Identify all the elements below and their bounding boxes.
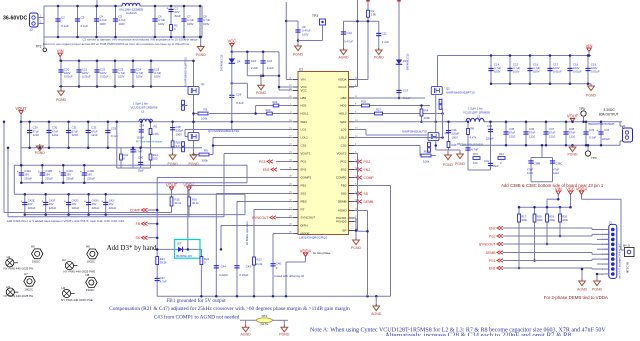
svg-text:VDDA: VDDA xyxy=(183,182,195,187)
svg-text:SW1: SW1 xyxy=(301,120,308,124)
svg-text:C39: C39 xyxy=(589,128,595,132)
svg-text:1210: 1210 xyxy=(529,134,536,138)
svg-text:COMP: COMP xyxy=(364,176,375,180)
svg-text:C11: C11 xyxy=(382,31,387,35)
svg-text:FB1 grounded for 5V output: FB1 grounded for 5V output xyxy=(166,297,226,304)
svg-text:100V: 100V xyxy=(176,132,182,136)
svg-text:C42E: C42E xyxy=(28,199,35,203)
svg-text:PG1: PG1 xyxy=(489,259,496,263)
svg-text:PGND: PGND xyxy=(35,151,46,155)
svg-text:220uF: 220uF xyxy=(602,137,610,141)
svg-text:VIN: VIN xyxy=(586,43,593,48)
svg-text:C49: C49 xyxy=(452,128,457,132)
svg-text:100V: 100V xyxy=(533,70,540,74)
svg-text:TP3: TP3 xyxy=(312,14,318,18)
svg-text:J2: J2 xyxy=(30,28,34,32)
svg-text:NY PMS 440 0025 PH: NY PMS 440 0025 PH xyxy=(4,267,34,271)
svg-text:0.1uF: 0.1uF xyxy=(589,136,596,140)
svg-text:R25: R25 xyxy=(361,100,366,104)
svg-text:Compensation (R21 & C47) adjus: Compensation (R21 & C47) adjusted for 25… xyxy=(109,305,350,312)
svg-text:82uF: 82uF xyxy=(175,14,182,18)
svg-text:+: + xyxy=(166,7,168,11)
svg-text:NVMFS6H801NLWFT1G: NVMFS6H801NLWFT1G xyxy=(446,90,475,94)
svg-text:PG1: PG1 xyxy=(301,160,307,164)
svg-text:0.01uF: 0.01uF xyxy=(100,75,109,79)
svg-text:MTSC-05: MTSC-05 xyxy=(626,261,630,273)
svg-text:HB1: HB1 xyxy=(301,96,307,100)
svg-text:80A OUTPUT: 80A OUTPUT xyxy=(599,113,619,117)
svg-text:Q1: Q1 xyxy=(201,82,205,86)
svg-text:SS: SS xyxy=(135,236,140,240)
svg-text:EN1: EN1 xyxy=(263,168,270,172)
svg-text:+: + xyxy=(596,129,598,133)
svg-text:C42G: C42G xyxy=(72,199,79,203)
svg-text:220uF: 220uF xyxy=(28,206,36,210)
svg-text:100k: 100k xyxy=(537,218,543,222)
svg-text:LOL2: LOL2 xyxy=(339,136,347,140)
svg-text:100k: 100k xyxy=(562,218,568,222)
svg-text:VOUT: VOUT xyxy=(567,114,579,119)
svg-text:EN2: EN2 xyxy=(364,168,371,172)
svg-text:FB2: FB2 xyxy=(341,184,347,188)
svg-text:100V: 100V xyxy=(302,32,309,36)
svg-text:VDDA: VDDA xyxy=(338,78,346,82)
svg-text:SYNCOUT: SYNCOUT xyxy=(301,216,316,220)
svg-text:220uF: 220uF xyxy=(92,206,100,210)
svg-text:EN2: EN2 xyxy=(489,226,496,230)
svg-text:1210: 1210 xyxy=(553,171,559,175)
svg-text:0.1uF: 0.1uF xyxy=(81,24,89,28)
svg-text:100V: 100V xyxy=(119,22,126,26)
svg-text:16V: 16V xyxy=(92,202,97,206)
svg-text:SYNCOUT: SYNCOUT xyxy=(479,242,496,246)
svg-text:tested with dithering off: tested with dithering off xyxy=(274,274,304,278)
svg-text:PGND: PGND xyxy=(279,332,290,336)
svg-text:36-60VDC: 36-60VDC xyxy=(3,16,27,22)
svg-text:SS1: SS1 xyxy=(301,192,307,196)
svg-text:1902C: 1902C xyxy=(87,260,96,264)
svg-text:16V: 16V xyxy=(49,202,54,206)
svg-text:LOL1: LOL1 xyxy=(301,136,309,140)
svg-text:PGND: PGND xyxy=(374,56,385,60)
svg-text:R20: R20 xyxy=(266,108,271,112)
svg-text:4.47k: 4.47k xyxy=(470,136,477,140)
svg-text:DEMB: DEMB xyxy=(364,200,375,204)
svg-text:H6: H6 xyxy=(86,245,90,249)
svg-text:LO1: LO1 xyxy=(301,128,307,132)
svg-text:R26: R26 xyxy=(176,141,181,145)
svg-text:PGND: PGND xyxy=(443,163,454,167)
svg-text:100V: 100V xyxy=(158,22,165,26)
svg-text:PGND: PGND xyxy=(351,246,362,250)
svg-text:16V: 16V xyxy=(109,202,114,206)
svg-text:NT1: NT1 xyxy=(262,314,268,318)
svg-text:R6: R6 xyxy=(471,127,475,131)
svg-text:R16: R16 xyxy=(192,198,197,202)
svg-text:0.01uF: 0.01uF xyxy=(591,70,600,74)
svg-text:for two phase: for two phase xyxy=(313,251,331,255)
svg-text:R10: R10 xyxy=(424,149,430,153)
svg-text:VOUT2: VOUT2 xyxy=(336,152,346,156)
svg-text:2.2nF: 2.2nF xyxy=(267,66,274,70)
svg-text:R18: R18 xyxy=(537,214,542,218)
svg-text:VCCX: VCCX xyxy=(338,85,346,89)
svg-text:VIN: VIN xyxy=(57,48,64,53)
svg-text:C45: C45 xyxy=(246,264,252,268)
svg-text:100k: 100k xyxy=(549,218,555,222)
svg-text:0.01uF: 0.01uF xyxy=(573,70,582,74)
svg-text:TP2: TP2 xyxy=(36,45,42,49)
svg-text:220uF: 220uF xyxy=(49,206,57,210)
svg-text:L2: L2 xyxy=(141,110,145,114)
svg-text:15pF: 15pF xyxy=(138,169,145,173)
svg-text:1210: 1210 xyxy=(527,171,533,175)
svg-text:+: + xyxy=(101,200,103,204)
svg-text:1210: 1210 xyxy=(509,134,516,138)
svg-text:NY PMS 440 0025 PH: NY PMS 440 0025 PH xyxy=(4,294,34,298)
svg-text:SYNCOUT: SYNCOUT xyxy=(252,216,269,220)
svg-text:100V: 100V xyxy=(136,75,143,79)
svg-text:H5: H5 xyxy=(31,245,35,249)
svg-text:AGND: AGND xyxy=(338,209,348,213)
svg-text:DEMB: DEMB xyxy=(338,200,347,204)
svg-text:CS1: CS1 xyxy=(301,144,307,148)
svg-text:16V: 16V xyxy=(87,173,92,177)
svg-text:4.7nF: 4.7nF xyxy=(160,280,167,284)
svg-text:RT: RT xyxy=(301,208,305,212)
svg-text:for 60kHz operation: for 60kHz operation xyxy=(245,221,249,245)
svg-text:+: + xyxy=(84,200,86,204)
svg-text:PGND: PGND xyxy=(168,162,179,166)
svg-text:220pF: 220pF xyxy=(176,129,184,133)
svg-text:C38B: C38B xyxy=(534,162,541,166)
svg-text:CS2: CS2 xyxy=(341,144,347,148)
svg-text:U3: U3 xyxy=(299,67,303,71)
svg-text:use XH-J1 to jumper 24-6 to 16: use XH-J1 to jumper 24-6 to 16-7 xyxy=(619,243,622,279)
svg-text:VCC: VCC xyxy=(301,89,308,93)
svg-text:PGND: PGND xyxy=(586,94,597,98)
svg-text:100V: 100V xyxy=(513,70,520,74)
svg-text:H4: H4 xyxy=(62,286,66,290)
svg-text:VCC: VCC xyxy=(227,39,236,44)
svg-text:30.1k: 30.1k xyxy=(192,201,199,205)
svg-text:TP4: TP4 xyxy=(591,156,597,160)
svg-text:R23: R23 xyxy=(257,257,263,261)
svg-text:HB2: HB2 xyxy=(341,96,347,100)
svg-text:Q2: Q2 xyxy=(446,87,450,91)
svg-text:best is to use copper jumper a: best is to use copper jumper across R2 o… xyxy=(43,42,189,46)
svg-text:C34: C34 xyxy=(487,124,493,128)
svg-text:47uF: 47uF xyxy=(553,168,559,172)
svg-text:D3*: D3* xyxy=(177,241,181,245)
svg-text:MODE: MODE xyxy=(301,232,310,236)
svg-text:LM5143AQRGGRQ1: LM5143AQRGGRQ1 xyxy=(299,235,328,239)
svg-text:C41: C41 xyxy=(484,159,489,163)
svg-text:16V: 16V xyxy=(24,173,29,177)
svg-text:Add C38B & C38C bottom side of: Add C38B & C38C bottom side of board nea… xyxy=(501,183,604,188)
svg-text:1210: 1210 xyxy=(33,133,40,137)
svg-text:220uF: 220uF xyxy=(66,176,74,180)
svg-text:C43 from COMP1 to AGND not nee: C43 from COMP1 to AGND not needed xyxy=(154,313,240,320)
svg-text:BAT46WJ,115: BAT46WJ,115 xyxy=(176,255,192,258)
svg-text:H2: H2 xyxy=(62,258,66,262)
svg-text:J3: J3 xyxy=(609,220,613,224)
svg-text:VIN: VIN xyxy=(555,186,562,191)
svg-text:TP5: TP5 xyxy=(579,107,585,111)
svg-text:3.3VDC: 3.3VDC xyxy=(604,108,616,112)
svg-text:0.01uF: 0.01uF xyxy=(64,75,73,79)
svg-text:C2: C2 xyxy=(61,16,65,20)
svg-text:C42B: C42B xyxy=(45,169,52,173)
svg-text:100k: 100k xyxy=(201,117,208,121)
svg-text:C42C: C42C xyxy=(66,169,73,173)
svg-text:COMP: COMP xyxy=(130,208,141,212)
svg-text:For 2-phase DEMB tied to VDDA: For 2-phase DEMB tied to VDDA xyxy=(544,295,608,300)
svg-text:C10: C10 xyxy=(347,31,353,35)
svg-text:EN2: EN2 xyxy=(341,168,347,172)
svg-text:16V: 16V xyxy=(72,202,77,206)
svg-text:PGND: PGND xyxy=(455,162,466,166)
svg-text:HO2: HO2 xyxy=(340,104,347,108)
svg-text:R14: R14 xyxy=(499,152,504,156)
svg-text:PGND2: PGND2 xyxy=(336,220,347,224)
svg-text:2.2: 2.2 xyxy=(176,144,180,148)
svg-text:100V: 100V xyxy=(203,22,210,26)
svg-text:R4: R4 xyxy=(425,109,429,113)
svg-text:AGND: AGND xyxy=(577,288,588,292)
svg-text:PGND: PGND xyxy=(567,153,578,157)
svg-text:EN1: EN1 xyxy=(489,266,496,270)
svg-text:RES: RES xyxy=(301,200,307,204)
svg-text:C38C: C38C xyxy=(556,162,563,166)
svg-text:0.47uF: 0.47uF xyxy=(344,40,353,44)
svg-text:0.1uF: 0.1uF xyxy=(61,24,69,28)
svg-text:R19: R19 xyxy=(549,214,554,218)
svg-text:PGND: PGND xyxy=(256,91,267,95)
svg-text:PG1: PG1 xyxy=(259,160,266,164)
svg-text:100: 100 xyxy=(473,161,478,165)
svg-text:1902C: 1902C xyxy=(86,288,95,292)
svg-text:L3: L3 xyxy=(477,115,481,119)
svg-text:C12: C12 xyxy=(251,59,257,63)
svg-text:R3: R3 xyxy=(204,107,208,111)
svg-text:PG2: PG2 xyxy=(489,234,496,238)
svg-text:HOL1: HOL1 xyxy=(301,112,309,116)
svg-text:D2: D2 xyxy=(403,59,407,63)
svg-text:16V: 16V xyxy=(45,173,50,177)
svg-text:EP: EP xyxy=(342,229,346,233)
svg-text:220uF: 220uF xyxy=(87,176,95,180)
svg-text:D4: D4 xyxy=(237,60,241,64)
svg-text:VOUT1: VOUT1 xyxy=(301,152,311,156)
svg-text:C13: C13 xyxy=(267,59,273,63)
svg-text:C44: C44 xyxy=(221,264,227,268)
svg-text:Net Tie: Net Tie xyxy=(261,323,269,326)
svg-text:100k: 100k xyxy=(423,160,430,164)
svg-text:1210: 1210 xyxy=(52,133,59,137)
svg-text:R20: R20 xyxy=(562,214,567,218)
svg-text:C42I: C42I xyxy=(109,199,115,203)
svg-text:220uF: 220uF xyxy=(45,176,53,180)
svg-text:100: 100 xyxy=(153,157,158,161)
svg-text:C1 serves to dampen VIN resona: C1 serves to dampen VIN resonance and re… xyxy=(82,37,197,41)
svg-text:HO1: HO1 xyxy=(301,104,308,108)
svg-text:30.1k: 30.1k xyxy=(175,201,182,205)
svg-text:H3: H3 xyxy=(6,285,10,289)
svg-text:SS: SS xyxy=(364,192,369,196)
svg-text:R7 See note A below: R7 See note A below xyxy=(136,139,163,143)
svg-text:1210: 1210 xyxy=(549,134,556,138)
svg-text:R27: R27 xyxy=(376,108,381,112)
svg-text:220nF: 220nF xyxy=(486,137,494,141)
svg-text:BAT46WJ,115: BAT46WJ,115 xyxy=(220,54,224,71)
svg-text:EN1: EN1 xyxy=(301,168,307,172)
svg-text:SW2: SW2 xyxy=(340,120,347,124)
svg-text:+: + xyxy=(80,170,82,174)
svg-text:100V: 100V xyxy=(494,70,501,74)
svg-text:+: + xyxy=(41,200,43,204)
svg-text:C40: C40 xyxy=(138,156,144,160)
svg-text:1210: 1210 xyxy=(72,133,79,137)
svg-text:R13: R13 xyxy=(473,152,478,156)
svg-text:R17: R17 xyxy=(521,214,526,218)
svg-text:R24: R24 xyxy=(273,100,278,104)
svg-text:COMP1: COMP1 xyxy=(301,176,312,180)
svg-text:100k: 100k xyxy=(521,218,527,222)
svg-text:100V: 100V xyxy=(118,75,125,79)
svg-text:100V: 100V xyxy=(452,135,458,139)
svg-text:COMP2: COMP2 xyxy=(336,176,347,180)
svg-text:Add D3* by hand.: Add D3* by hand. xyxy=(107,244,159,252)
svg-text:H8: H8 xyxy=(86,273,90,277)
svg-text:C28: C28 xyxy=(139,123,145,127)
svg-text:Coilcraft: Coilcraft xyxy=(126,11,137,15)
svg-text:+: + xyxy=(64,200,66,204)
svg-text:C48: C48 xyxy=(176,125,181,129)
svg-text:VDDA: VDDA xyxy=(300,248,312,253)
svg-text:16V: 16V xyxy=(66,173,71,177)
svg-text:PGND: PGND xyxy=(56,98,67,102)
svg-text:16V: 16V xyxy=(28,202,33,206)
svg-text:0.22µF: 0.22µF xyxy=(239,273,248,277)
svg-text:100V: 100V xyxy=(100,22,107,26)
svg-text:0.01uF: 0.01uF xyxy=(82,75,91,79)
svg-text:220uF: 220uF xyxy=(109,206,117,210)
svg-text:C42: C42 xyxy=(604,128,610,132)
svg-text:C26: C26 xyxy=(236,93,242,97)
svg-text:VCC: VCC xyxy=(566,186,575,191)
svg-text:VOUT: VOUT xyxy=(166,182,178,187)
svg-text:+: + xyxy=(20,200,22,204)
svg-text:Add C42A thru I or 9 added cap: Add C42A thru I or 9 added caps between … xyxy=(7,219,124,223)
svg-text:NY PMS 440 0025 PHE: NY PMS 440 0025 PHE xyxy=(61,298,93,302)
svg-text:SH-J1: SH-J1 xyxy=(623,243,631,247)
svg-text:PG2: PG2 xyxy=(364,160,371,164)
svg-text:0.01uF: 0.01uF xyxy=(553,70,562,74)
svg-text:100k: 100k xyxy=(202,159,209,163)
svg-text:4.47k: 4.47k xyxy=(152,132,159,136)
svg-text:0.1uF: 0.1uF xyxy=(236,101,244,105)
svg-text:NVMFS6H801NLT3G: NVMFS6H801NLT3G xyxy=(402,129,427,133)
svg-text:PGND: PGND xyxy=(592,288,603,292)
svg-text:R5: R5 xyxy=(154,125,158,129)
svg-text:R9: R9 xyxy=(204,148,208,152)
svg-text:H7: H7 xyxy=(24,272,28,276)
svg-text:4.7nF: 4.7nF xyxy=(471,148,478,152)
svg-text:0.22µF: 0.22µF xyxy=(219,273,228,277)
svg-text:+: + xyxy=(17,170,19,174)
svg-text:PGND: PGND xyxy=(196,53,207,57)
svg-text:VOUT: VOUT xyxy=(15,106,27,111)
svg-text:PGND: PGND xyxy=(188,162,199,166)
svg-text:NY PMS 440 0025 PHE: NY PMS 440 0025 PHE xyxy=(64,270,96,274)
svg-text:TSM021057M0VSATE025: TSM021057M0VSATE025 xyxy=(588,123,616,126)
svg-text:1.00: 1.00 xyxy=(371,13,377,17)
svg-text:100V: 100V xyxy=(154,75,161,79)
svg-text:PG2: PG2 xyxy=(340,160,346,164)
svg-text:C27: C27 xyxy=(403,89,409,93)
svg-text:HOL2: HOL2 xyxy=(339,112,347,116)
svg-text:C42D: C42D xyxy=(87,169,94,173)
svg-text:FB: FB xyxy=(136,222,141,226)
svg-text:R15: R15 xyxy=(175,198,180,202)
svg-text:AGND: AGND xyxy=(371,312,382,316)
svg-text:1210: 1210 xyxy=(569,134,576,138)
svg-text:AGND: AGND xyxy=(338,56,349,60)
svg-text:VDDA: VDDA xyxy=(576,186,588,191)
svg-text:+: + xyxy=(59,170,61,174)
svg-text:100k: 100k xyxy=(424,116,431,120)
svg-text:SS2: SS2 xyxy=(341,192,347,196)
svg-text:AGND: AGND xyxy=(241,332,252,336)
svg-text:4.7nF: 4.7nF xyxy=(135,150,142,154)
svg-text:14.3k: 14.3k xyxy=(256,262,263,266)
svg-text:C42A: C42A xyxy=(24,169,31,173)
svg-text:DEMB: DEMB xyxy=(486,251,497,255)
svg-text:1210: 1210 xyxy=(91,133,98,137)
svg-text:15pF: 15pF xyxy=(493,164,499,168)
svg-text:39.2k: 39.2k xyxy=(160,261,167,265)
svg-text:2.2nF: 2.2nF xyxy=(382,40,390,44)
svg-text:1902C: 1902C xyxy=(32,260,41,264)
svg-text:C3: C3 xyxy=(81,16,85,20)
svg-text:+: + xyxy=(38,170,40,174)
svg-text:47uF: 47uF xyxy=(527,168,533,172)
svg-text:C42H: C42H xyxy=(92,199,99,203)
svg-text:FB1: FB1 xyxy=(301,184,307,188)
svg-text:VIN: VIN xyxy=(301,78,306,82)
svg-text:J1: J1 xyxy=(623,124,627,128)
svg-text:C46: C46 xyxy=(276,261,282,265)
svg-text:H1: H1 xyxy=(7,255,11,259)
svg-text:PGND: PGND xyxy=(293,53,304,57)
svg-text:100V: 100V xyxy=(187,22,194,26)
svg-text:LO2: LO2 xyxy=(341,128,347,132)
svg-text:1902C: 1902C xyxy=(24,287,33,291)
svg-text:DITH: DITH xyxy=(301,224,308,228)
svg-text:2.2nF: 2.2nF xyxy=(251,66,258,70)
svg-text:NVMFS6H801NLWFT1G: NVMFS6H801NLWFT1G xyxy=(184,57,188,86)
svg-text:220uF: 220uF xyxy=(72,206,80,210)
svg-text:220uF: 220uF xyxy=(24,176,32,180)
svg-text:Alternatively, increase C28 &: Alternatively, increase C28 & C34 each t… xyxy=(385,332,572,336)
svg-text:220pF: 220pF xyxy=(452,132,460,136)
svg-text:C42F: C42F xyxy=(49,199,56,203)
svg-text:C33: C33 xyxy=(111,127,117,131)
